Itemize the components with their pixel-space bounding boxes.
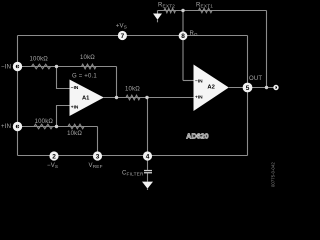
svg-text:CFILTER: CFILTER	[122, 171, 144, 177]
junction node A2 plus input	[145, 96, 148, 99]
wire A1 feedback top	[57, 66, 117, 68]
svg-text:G = +0.1: G = +0.1	[72, 74, 97, 80]
wire A2 minus input stub	[183, 80, 194, 82]
wire +IN terminal line	[18, 126, 98, 128]
svg-text:100kΩ: 100kΩ	[35, 119, 54, 125]
svg-text:A1: A1	[82, 96, 90, 102]
wire top arrow drop	[157, 11, 159, 14]
svg-text:−IN: −IN	[71, 85, 79, 91]
svg-text:−VS: −VS	[47, 163, 58, 169]
svg-text:00775-0-042: 00775-0-042	[271, 162, 276, 187]
supply arrow top (down triangle)	[153, 14, 162, 20]
svg-text:−IN: −IN	[1, 65, 11, 71]
pin 3 circle	[93, 151, 102, 160]
pin 8 circle	[179, 31, 188, 40]
pin 5 circle	[243, 83, 253, 93]
junction node at -IN attenuator	[55, 65, 58, 68]
svg-text:VREF: VREF	[89, 163, 103, 169]
svg-text:10kΩ: 10kΩ	[67, 131, 82, 137]
svg-text:2: 2	[52, 154, 56, 161]
svg-text:REXT2: REXT2	[158, 2, 175, 8]
pin 7 circle	[118, 31, 127, 40]
svg-text:+IN: +IN	[195, 94, 203, 100]
svg-text:+VS: +VS	[116, 23, 127, 29]
svg-text:10kΩ: 10kΩ	[125, 87, 140, 93]
wire left vertical bus	[17, 36, 19, 156]
resistor 10k bottom	[68, 124, 84, 129]
junction node A1 output feedback	[115, 96, 118, 99]
wire C_FILT to ground arrow	[147, 173, 149, 181]
svg-text:RG: RG	[190, 31, 199, 37]
wire ground arrow tail	[147, 189, 149, 190]
wire right vertical from bottom rail up to pin 5	[247, 88, 249, 156]
terminal OUT	[274, 86, 278, 90]
wire A1 feedback down	[116, 67, 118, 98]
capacitor C_FILT plates	[144, 170, 152, 174]
pin 4 circle	[143, 151, 152, 160]
op-amp A2 (AD620)	[194, 65, 229, 112]
resistor REXT1	[199, 8, 213, 12]
wire RG vertical	[182, 11, 184, 81]
wire -IN terminal line	[18, 66, 57, 68]
wire A1 plus input drop	[57, 106, 70, 127]
wire right feedback vertical REXT1 to output junction	[266, 11, 268, 88]
svg-text:10kΩ: 10kΩ	[80, 55, 95, 61]
svg-text:A2: A2	[207, 84, 214, 90]
resistor 100k bottom (+IN input)	[34, 124, 53, 129]
wire top REXT line	[158, 10, 267, 12]
svg-text:AD620: AD620	[186, 133, 208, 140]
svg-text:100kΩ: 100kΩ	[30, 56, 49, 62]
svg-text:OUT: OUT	[249, 76, 262, 82]
svg-text:8: 8	[181, 33, 185, 40]
svg-text:+IN: +IN	[1, 124, 11, 130]
wire output line	[229, 87, 276, 89]
svg-text:5: 5	[246, 85, 250, 92]
terminal -IN	[14, 63, 20, 69]
junction node output	[265, 86, 268, 89]
resistor REXT2	[164, 8, 176, 12]
wire A1 output to A2 plus input	[104, 97, 194, 99]
svg-text:7: 7	[121, 33, 125, 40]
junction node +IN line	[55, 125, 58, 128]
svg-text:4: 4	[146, 154, 150, 161]
wire from RG line corner down to pin 5	[247, 36, 249, 88]
resistor 10k A1 out to A2	[126, 95, 140, 100]
resistor 10k feedback A1	[82, 64, 97, 69]
junction node REXT divider	[181, 9, 184, 12]
terminal +IN	[14, 123, 20, 129]
wire bottom rail	[18, 155, 248, 157]
wire A2 plus node down to pin 4	[147, 98, 149, 153]
wire pin 4 down to C_FILT	[147, 161, 149, 170]
ground arrow bottom (down triangle)	[142, 182, 153, 189]
svg-text:REXT1: REXT1	[196, 2, 213, 8]
wire -IN node down to A1 minus	[57, 67, 70, 89]
op-amp A1	[70, 80, 104, 117]
resistor 100k top (-IN input)	[32, 64, 51, 69]
wire +Vs rail top	[18, 35, 248, 37]
pin 2 circle	[49, 151, 58, 160]
svg-text:+IN: +IN	[71, 104, 79, 110]
svg-text:3: 3	[96, 154, 100, 161]
svg-text:−IN: −IN	[195, 79, 203, 85]
wire top arrow tail	[157, 20, 159, 23]
wire +IN line corner down to pin 3	[97, 127, 99, 153]
